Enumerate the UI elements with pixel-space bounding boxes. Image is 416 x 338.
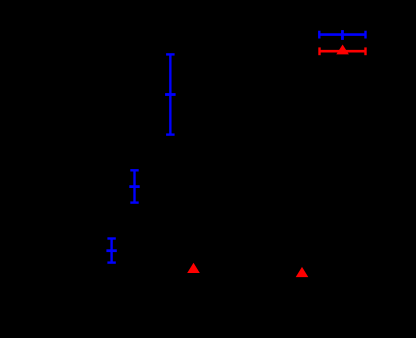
legend blue center marker [341,30,344,40]
bottom cap [166,133,175,135]
legend red left cap [318,47,320,55]
legend entry red [320,47,366,55]
wire vertical error line [169,54,171,134]
legend red line [320,50,366,53]
triangle marker 2 (red series) [296,267,309,277]
legend blue right cap [364,31,366,39]
center marker [129,185,139,188]
bottom cap [130,201,138,203]
top cap [166,53,175,55]
legend blue left cap [318,31,320,39]
legend entry blue [319,30,365,40]
legend red right cap [364,47,366,55]
bottom cap [107,261,115,263]
error bar series 1 point 3 (blue) [106,239,116,263]
error bar series 1 point 1 (blue) [165,54,176,134]
wire vertical error line [110,239,112,263]
legend red triangle marker [336,45,349,55]
triangle marker 1 (red series) [187,263,200,273]
top cap [107,237,115,239]
center marker [106,249,116,252]
center marker [165,93,176,96]
legend blue line [319,33,365,36]
error bar series 1 point 2 (blue) [129,170,139,202]
top cap [130,169,138,171]
wire vertical error line [133,170,135,202]
